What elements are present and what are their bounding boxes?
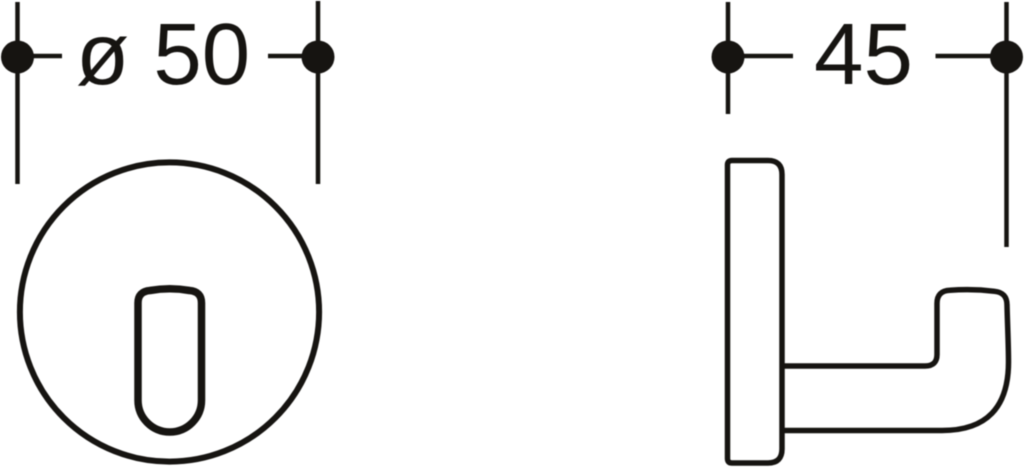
right view: wall plate (728, 161, 783, 464)
right view: dimension segment right (936, 54, 1007, 59)
right view: extension line left (726, 2, 731, 114)
left view: extension line left (15, 2, 20, 184)
right view: dot right (990, 41, 1023, 74)
left view: dot left (1, 41, 34, 74)
svg-text:45: 45 (814, 6, 913, 103)
right view: hook arm and tip (781, 290, 1009, 431)
right view: extension line right (1004, 2, 1009, 247)
right view: dot left (712, 41, 745, 74)
left view: slot (138, 289, 202, 432)
left view: dimension segment right (268, 54, 318, 59)
right view: dimension segment left (728, 54, 793, 59)
svg-text:ø 50: ø 50 (76, 6, 250, 103)
left view: extension line right (316, 1, 321, 184)
left view: dimension segment left (18, 54, 63, 59)
left view: rosette circle (20, 162, 319, 461)
left view: dot right (302, 41, 335, 74)
